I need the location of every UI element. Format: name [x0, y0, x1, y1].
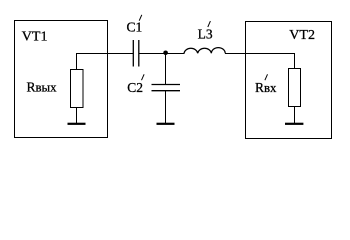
resistor Rвх [289, 69, 301, 107]
svg-text:Rвых: Rвых [27, 80, 58, 95]
wire: down to resistor Rвх [294, 53, 296, 69]
resistor Rвых [71, 70, 84, 108]
svg-text:VT1: VT1 [22, 30, 48, 45]
svg-text:Rвх: Rвх [255, 80, 277, 95]
wire: resistor Rвх bottom lead [294, 107, 296, 124]
wire: resistor Rвых top lead [76, 53, 78, 70]
wire: node to inductor [166, 53, 185, 55]
svg-text:C2: C2 [127, 80, 143, 95]
ground under C2 [157, 123, 175, 125]
wire: resistor Rвых bottom lead [76, 108, 78, 124]
wire: inductor to VT2 input [225, 53, 294, 55]
wire: C1 to node [139, 53, 166, 55]
inductor L3 [184, 48, 225, 54]
node junction dot [163, 51, 168, 56]
svg-text:L3: L3 [198, 27, 213, 42]
wire: VT1 output to C1 [76, 53, 134, 55]
wire: node down to C2 [165, 53, 167, 85]
transistor stage box VT1 [15, 21, 108, 138]
wire: C2 to ground [165, 91, 167, 123]
svg-text:C1: C1 [127, 20, 143, 35]
capacitor C1 [133, 40, 139, 67]
ground under Rвх [285, 123, 303, 125]
transistor stage box VT2 [246, 22, 332, 139]
svg-text:VT2: VT2 [289, 28, 315, 43]
ground under Rвых [68, 123, 86, 125]
capacitor C2 [152, 85, 181, 91]
